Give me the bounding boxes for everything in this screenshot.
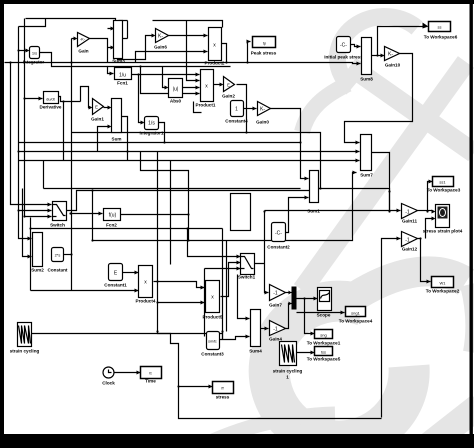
wire gain7 out [286,292,292,294]
svg-text:stress: stress [216,395,230,400]
svg-text:Sum8: Sum8 [360,77,373,82]
wire bus y289.5 [31,290,139,292]
block Sum3 [112,21,125,64]
svg-text:Constant: Constant [48,268,68,273]
wire gain2 out [237,85,247,133]
block Gain [78,33,90,54]
wire product5 in2 [158,302,205,304]
block To Workspace5 [307,347,341,362]
svg-text:To Workspace5: To Workspace5 [307,357,341,362]
block Gain0 [256,102,270,125]
svg-text:To Workspace4: To Workspace4 [339,319,373,324]
wire bus y239.5 [93,173,357,241]
block Switch [50,202,66,228]
svg-text:sm/E: sm/E [208,340,217,344]
wire to sng [305,299,315,334]
wire constant3 to sum4 [220,337,250,340]
wire initial peak stress out [351,45,361,47]
wire product1 in2 [187,21,200,81]
block initial peak stress [324,37,363,60]
wire bus y151 [19,151,360,153]
wire sum8 out [372,55,385,57]
block empty loop rect [231,194,251,231]
svg-text:Gain2: Gain2 [222,94,235,99]
svg-text:Product4: Product4 [136,299,156,304]
svg-text:Sum4: Sum4 [249,349,262,354]
wire riser x170 [170,161,172,265]
svg-text:initial peak stress: initial peak stress [324,55,363,60]
wire jog [81,87,91,108]
wire bus y187.5 [44,161,301,189]
block Gain11 [402,204,418,224]
svg-text:Clock: Clock [102,381,115,386]
svg-text:tss: tss [321,350,326,355]
svg-text:sng1: sng1 [351,311,360,316]
wire switch out to fcn2 [71,213,103,215]
svg-text:Sum: Sum [112,137,122,142]
wire bus y228 [31,228,223,230]
wire gain6 out [169,35,208,37]
svg-text:Gain10: Gain10 [385,63,401,68]
svg-text:Sum3: Sum3 [112,59,125,64]
svg-text:Switch1: Switch1 [238,275,256,280]
svg-text:K-: K- [260,107,265,113]
svg-text:To Workspace6: To Workspace6 [424,35,458,40]
wire strain1 to tss [297,352,315,354]
wire sum4 in1 [238,275,250,319]
svg-text:Gain: Gain [78,49,88,54]
svg-text:K-: K- [158,34,163,40]
wire fcn1 to integrator1 [132,75,200,123]
svg-text:1: 1 [235,107,238,113]
block Sum8 [360,38,373,82]
wire ff in [179,386,213,388]
svg-text:2*s: 2*s [55,253,61,258]
block strain cycling [10,323,40,354]
block Gain4 [269,321,285,342]
svg-text:Gain11: Gain11 [402,219,418,224]
frame left border [0,0,4,448]
wire integrator1 out [159,123,165,143]
block Gain1 [91,99,104,122]
svg-text:Time: Time [145,379,156,384]
block Integrator1 [140,117,164,136]
wire gain4 out [286,304,292,329]
wire sum out [122,117,128,161]
svg-text:E: E [95,105,98,110]
block Derivative [40,92,62,110]
wire switch out bus y190.5 [67,191,311,211]
block Scope [317,288,332,318]
watermark right swoosh [338,271,466,308]
block Fcn1 [115,68,132,86]
wire constant2 to sum1 [286,198,309,233]
svg-text:-1: -1 [405,238,410,244]
block Sum2 [31,233,44,273]
block Constant2 [267,223,290,250]
wire sum3 loop [118,21,152,60]
svg-text:Gain1: Gain1 [91,117,104,122]
svg-text:Gain7: Gain7 [269,303,282,308]
wire sum7 out [371,153,390,212]
block To Workspace6 [424,22,458,40]
wire constant out [64,254,72,256]
block Constant3 [201,332,224,357]
svg-text:Product5: Product5 [203,315,223,320]
wire bus y160 [19,160,360,162]
svg-text:E: E [227,83,230,88]
wire stress line [158,303,382,419]
wire derivative out [58,97,81,161]
wire left vertical x24 [25,19,52,217]
block To Workspace4 [339,307,373,324]
wire to sng1 [297,312,345,314]
svg-text:ss: ss [438,25,442,30]
wire switch1 in1 [188,229,241,257]
svg-text:strain cycling: strain cycling [273,369,303,374]
wire gain1 to sum [104,107,108,109]
svg-text:Constant3: Constant3 [201,352,224,357]
wire sum2 in2 riser [23,189,32,257]
wire gain12 in [382,239,401,418]
block Clock [102,367,115,386]
svg-text:1/s: 1/s [148,121,155,127]
wire sum8 to ws6 [378,27,424,56]
wire bus B extension [108,66,231,68]
watermark right sliver [467,285,472,352]
block Product5 [203,281,223,320]
svg-text:Abs0: Abs0 [170,99,182,104]
frame top border [0,0,474,4]
svg-text:-1: -1 [273,327,278,333]
block Fcn2 [104,209,121,228]
svg-text:Constant2: Constant2 [267,245,290,250]
svg-text:Integrator1: Integrator1 [140,131,164,136]
svg-text:-1: -1 [273,291,278,297]
svg-text:Sum2: Sum2 [31,268,44,273]
svg-text:Sum1: Sum1 [307,209,320,214]
block Switch1 [238,254,256,280]
watermark diagonal band down-right [350,66,474,153]
svg-text:-C-: -C- [340,43,347,49]
block Constant1 [104,264,127,288]
wire peak stress in [248,42,251,63]
wire switch1 out riser [255,211,269,293]
block Sum4 [249,310,262,354]
wire bus B y65.5 integrator out [40,53,114,74]
wire switch1 in3 [205,269,241,337]
block Sum1 [307,171,320,214]
block Product2 [205,28,225,66]
svg-text:sng: sng [320,333,326,338]
svg-text:-C-: -C- [275,231,282,237]
wire staircase y170 [121,152,189,241]
svg-text:To Workspace1: To Workspace1 [307,341,341,346]
wire riser x157 [157,152,159,303]
svg-text:ss1: ss1 [439,180,446,185]
svg-text:Constant4: Constant4 [225,119,248,124]
svg-text:Scope: Scope [317,313,331,318]
svg-text:Switch: Switch [50,223,65,228]
wire gain0 out [270,109,309,179]
block Gain10 [385,47,401,68]
wire sum4 out [261,328,269,330]
frame right border [470,0,473,448]
svg-text:Gain6: Gain6 [154,45,167,50]
svg-text:du/dt: du/dt [46,98,55,102]
svg-text:Gain4: Gain4 [269,337,282,342]
svg-text:Gain12: Gain12 [402,247,418,252]
wire product1 in4 [141,67,202,113]
svg-text:Fcn2: Fcn2 [106,223,117,228]
block stress [213,382,234,400]
wire constant4 out [243,108,257,110]
watermark corner leg [420,405,474,448]
block Constant [48,248,68,273]
svg-text:1: 1 [286,375,289,380]
wire integrator input [19,50,26,52]
wire gain10 feedback [345,54,413,143]
wire switch in2 [19,210,52,212]
svg-text:W1: W1 [440,281,447,286]
block Product4 [136,266,156,304]
watermark diagonal band down-left [302,62,466,290]
block Sum [112,99,122,142]
svg-text:Fcn1: Fcn1 [117,81,128,86]
svg-text:f(u): f(u) [109,213,117,219]
svg-text:Constant1: Constant1 [104,283,127,288]
block To Workspace3 [427,177,461,193]
svg-text:Product1: Product1 [196,103,216,108]
block Gain7 [269,285,285,308]
svg-text:Gain0: Gain0 [256,120,269,125]
block Gain2 [222,77,235,99]
block To Workspace2 [426,277,460,294]
wire bus y141 [19,142,301,144]
block strain cycling 1 [273,342,303,380]
block Peak stress [251,37,277,56]
wire to ws3 [428,182,433,211]
wire sum1 out [319,189,390,212]
wire gain input [72,39,74,291]
block Integrator [23,47,45,65]
svg-text:|u|: |u| [173,87,178,93]
wire product1 out [214,84,220,86]
wire riser x222 [222,229,224,340]
block Gain6 [154,29,168,50]
wire sum in2 [98,127,108,152]
block Constant4 [225,101,248,124]
svg-text:-1: -1 [405,210,410,216]
arrowheads [26,23,436,389]
wire bus A y62.5 [5,63,361,64]
wire gain to sum3 [90,29,111,63]
wire bus y131 [72,133,321,189]
svg-text:Peak stress: Peak stress [251,51,277,56]
wire product2 out [222,44,227,63]
frame bottom bar [0,434,474,448]
block Product1 [196,70,216,108]
wire gain12 to plot [426,219,433,239]
watermark ampersand top ring [337,17,417,88]
svg-text:Derivative: Derivative [40,105,62,110]
wire abs out [183,87,200,89]
wire riser x30 [30,218,32,291]
watermark bottom ring [269,301,409,441]
wire derivative in [25,98,43,100]
wire gain11 bus [265,210,401,212]
wire product2 in2 [136,52,208,63]
block Sum7 [360,135,373,178]
svg-text:Integrator: Integrator [23,60,45,65]
wire strain bus [32,332,223,340]
block Time [141,367,162,384]
svg-text:1/u: 1/u [119,73,126,79]
wire gain12 out [418,239,431,282]
wire riser x225 [226,241,228,332]
wire clock to time [115,372,141,374]
wire gain11 out [418,210,433,212]
svg-text:To Workspace3: To Workspace3 [427,188,461,193]
wire riser x92 [92,191,94,241]
wire mux out [297,298,318,300]
svg-text:K-: K- [388,52,393,58]
svg-text:-K-: -K- [80,37,86,42]
wire top bus y19 [26,19,223,28]
svg-text:To Workspace2: To Workspace2 [426,289,460,294]
svg-text:strain cycling: strain cycling [10,349,40,354]
block stress strain plot4 [423,205,463,234]
wire left vertical x18 [19,19,46,239]
wire product4 out [154,282,205,288]
wire abs in [163,67,166,88]
svg-text:Sum7: Sum7 [360,173,373,178]
svg-text:stress strain plot4: stress strain plot4 [423,229,463,234]
wire switch1 in2 [221,263,241,297]
svg-text:1/s: 1/s [32,51,37,56]
block Gain12 [402,232,418,252]
block Mux [292,287,297,310]
block Abs [169,79,183,104]
watermark bottom-left arc [190,414,335,448]
wire constant1 out [123,272,139,274]
watermark left descender [302,84,348,132]
wire left vertical x10 [11,63,52,205]
svg-text:Product2: Product2 [205,61,225,66]
block To Workspace1 [307,330,341,346]
